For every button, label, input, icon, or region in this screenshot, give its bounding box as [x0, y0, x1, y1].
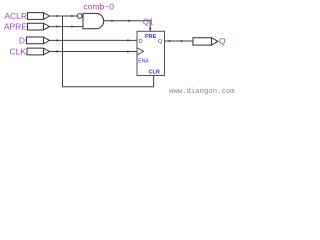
svg-text:www.diangon.com: www.diangon.com	[169, 88, 235, 96]
svg-text:ACLR: ACLR	[4, 11, 27, 21]
svg-text:Q: Q	[158, 39, 163, 45]
output pin Q	[193, 36, 226, 46]
svg-text:PRE: PRE	[145, 34, 157, 40]
input pin ACLR	[4, 11, 49, 21]
input pin D	[19, 35, 50, 45]
arrow on APRE wire (after pin)	[56, 25, 59, 27]
inverter bubble on gate input	[77, 14, 82, 19]
arrow on gate output wire (second)	[128, 20, 131, 22]
svg-text:APRE: APRE	[4, 21, 27, 31]
svg-text:D: D	[19, 35, 25, 45]
svg-text:Q: Q	[219, 36, 226, 46]
arrow on Q wire (second)	[181, 40, 184, 42]
wire branch ACLR down to CLR net	[63, 16, 154, 87]
svg-text:CLR: CLR	[149, 70, 160, 76]
input pin CLK	[9, 47, 49, 57]
svg-text:Q1: Q1	[143, 17, 154, 26]
arrow on D wire (before flip-flop)	[127, 39, 130, 41]
arrow on CLK wire (after pin)	[56, 50, 59, 52]
clock triangle	[137, 48, 144, 55]
wire ACLR to gate bubble	[50, 15, 78, 17]
arrow on CLK wire (before flip-flop)	[127, 50, 130, 52]
AND gate comb~0	[83, 13, 104, 28]
arrow on D wire (after pin)	[56, 39, 59, 41]
wire Q output to pin	[165, 40, 194, 42]
arrow down into PRE	[149, 28, 151, 31]
arrow on ACLR wire (after pin)	[56, 15, 59, 17]
svg-text:comb~0: comb~0	[84, 2, 115, 12]
svg-text:ENA: ENA	[138, 59, 149, 65]
arrow on gate output wire	[111, 20, 114, 22]
arrow on Q wire (after flip-flop)	[169, 40, 172, 42]
wire CLK to flip-flop	[50, 51, 138, 53]
svg-text:CLK: CLK	[9, 47, 26, 57]
arrow on APRE wire (before gate)	[71, 25, 74, 27]
wire D to flip-flop	[50, 39, 138, 41]
svg-text:D: D	[139, 39, 143, 45]
arrow on ACLR wire (before bubble)	[71, 15, 74, 17]
flip-flop Q1 box	[137, 31, 165, 75]
input pin APRE	[4, 21, 50, 31]
wire gate output to PRE	[104, 21, 151, 32]
wire APRE to gate	[50, 26, 84, 28]
